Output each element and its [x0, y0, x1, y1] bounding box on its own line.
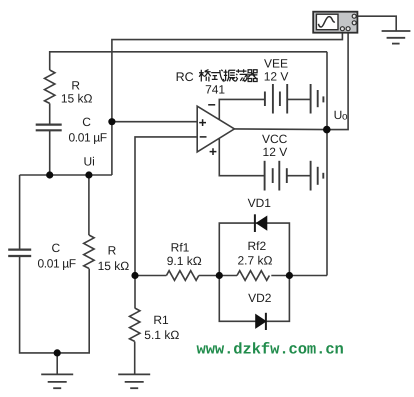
svg-text:R: R: [108, 243, 117, 257]
op-amp U1 741 triangle: [197, 106, 234, 152]
wire scope channel B riser to output node: [327, 30, 348, 130]
node Rf2 right junction: [286, 272, 293, 279]
svg-text:Rf2: Rf2: [247, 239, 266, 253]
svg-text:9.1 kΩ: 9.1 kΩ: [167, 254, 202, 268]
hanzi qiao: [199, 70, 211, 82]
hanzi shi: [211, 70, 223, 81]
svg-text:12 V: 12 V: [263, 145, 288, 159]
op-amp minus input sign: [200, 136, 207, 138]
wire series R lead and C link: [49, 103, 51, 124]
diode VD1: [255, 214, 267, 232]
wire op-amp output to node Uo: [234, 128, 327, 131]
battery VCC plates: [265, 161, 324, 191]
svg-text:Rf1: Rf1: [171, 241, 190, 255]
node Uo output junction: [323, 126, 331, 134]
wire op-amp inverting input down to feedback node: [135, 137, 197, 276]
title RC bridge oscillator text: [176, 69, 258, 84]
ground (bottom left): [41, 374, 73, 388]
ground (top right, scope): [382, 31, 411, 44]
svg-text:2.7 kΩ: 2.7 kΩ: [238, 254, 273, 268]
wire Ui row: [20, 174, 112, 176]
wire right vertical bus output net: [326, 52, 328, 276]
svg-text:o: o: [342, 111, 348, 122]
node Rf1/Rf2 junction: [216, 272, 223, 279]
wire ground1 stem: [56, 353, 58, 374]
svg-text:C: C: [82, 115, 91, 129]
wire scope channel A from Ui column: [112, 30, 343, 175]
wire series C to Ui row: [49, 131, 51, 175]
wire R1 top lead from feedback node: [134, 276, 136, 309]
svg-text:RC: RC: [176, 70, 194, 84]
svg-text:15 kΩ: 15 kΩ: [61, 91, 93, 105]
wire scope ground to top-right ground: [356, 16, 396, 31]
op-amp VEE polarity minus sign: [208, 104, 215, 106]
op-amp plus input sign: [199, 105, 216, 155]
node Ui right junction: [85, 171, 92, 178]
svg-text:Ui: Ui: [84, 154, 95, 168]
wire feedback row Rf1 to Rf2: [135, 275, 327, 277]
wire parallel R top lead: [88, 175, 90, 235]
resistor R1 5.1k: [130, 308, 140, 341]
node feedback left junction: [131, 272, 138, 279]
hanzi qi: [248, 70, 258, 82]
svg-text:0.01 µF: 0.01 µF: [38, 256, 76, 270]
capacitor C 0.01uF series (top): [36, 125, 62, 131]
wire op-amp VCC pin riser: [219, 138, 264, 175]
wire VCC battery middle link: [287, 175, 311, 177]
wire diode VD1 branch: [219, 223, 289, 275]
svg-text:15 kΩ: 15 kΩ: [98, 259, 130, 273]
svg-text:C: C: [51, 241, 60, 255]
oscilloscope XSC1: [313, 12, 357, 33]
battery VEE plates: [265, 84, 324, 114]
wire parallel capacitor to bottom wire: [20, 257, 90, 353]
capacitor C 0.01uF parallel (left): [8, 250, 31, 256]
resistor Rf2 2.7k: [237, 271, 269, 281]
svg-text:VEE: VEE: [264, 56, 288, 70]
node Ui left junction: [46, 171, 53, 178]
svg-text:5.1 kΩ: 5.1 kΩ: [144, 328, 179, 342]
node ground tap junction: [54, 349, 61, 356]
node junction at op-amp + input: [108, 118, 115, 125]
wire R1 bottom lead to ground2: [134, 342, 136, 375]
diode VD2: [256, 313, 266, 330]
hanzi dang: [236, 69, 247, 81]
svg-text:741: 741: [205, 82, 225, 96]
ground (bottom middle): [118, 374, 150, 388]
svg-text:R1: R1: [153, 313, 169, 327]
resistor R 15k series (top left): [45, 70, 55, 103]
hanzi zhen: [224, 70, 236, 82]
svg-text:0.01 µF: 0.01 µF: [69, 130, 107, 144]
wire op-amp noninverting input from node: [112, 121, 197, 123]
svg-text:VD2: VD2: [248, 291, 272, 305]
svg-text:U: U: [334, 108, 343, 122]
svg-text:12 V: 12 V: [264, 70, 289, 84]
op-amp VCC polarity plus sign: [210, 148, 217, 155]
wire left column down to parallel capacitor: [19, 175, 21, 249]
resistor Rf1 9.1k: [166, 271, 198, 281]
svg-text:R: R: [71, 78, 80, 92]
svg-text:VD1: VD1: [248, 196, 272, 210]
wire diode VD2 branch: [219, 276, 289, 322]
resistor R 15k parallel (middle): [84, 235, 94, 268]
wire VEE battery middle link: [287, 98, 310, 100]
wire top feedback from output bus to R top: [50, 52, 327, 70]
svg-text:www.dzkfw.com.cn: www.dzkfw.com.cn: [197, 341, 344, 359]
wire op-amp VEE pin riser: [219, 99, 265, 119]
